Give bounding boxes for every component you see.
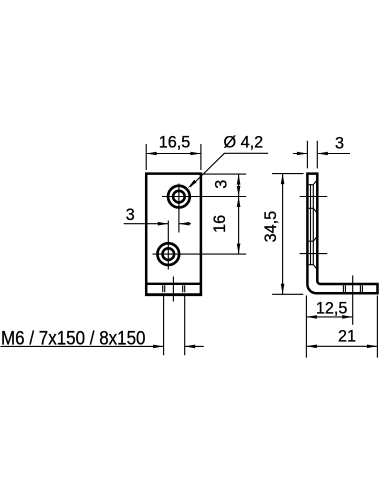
leader Ø 4,2 arrow: [188, 180, 197, 189]
dim 16 arrows: [237, 197, 241, 208]
dimension 16,5 extension lines: [146, 144, 201, 170]
dimension 21 line: [306, 345, 377, 347]
flange hole centerline (front view): [172, 277, 174, 302]
hole H2 inner circle Ø4,2: [163, 248, 175, 260]
side view leg hole corner diagonals: [313, 181, 316, 269]
side view leg hole edge ticks: [309, 185, 314, 265]
leader Ø 4,2 shelf line: [190, 153, 268, 187]
svg-text:34,5: 34,5: [262, 211, 280, 243]
side view: L profile outline: [307, 174, 377, 294]
dimension 3 (hole offset) arrows: [158, 222, 169, 226]
dimension 3 (thickness) line segments: [293, 153, 350, 155]
side view flange hole ticks: [343, 285, 362, 292]
svg-text:3: 3: [335, 135, 344, 153]
svg-text:16,5: 16,5: [159, 134, 191, 152]
dimension 12,5 arrows: [306, 315, 317, 319]
hole H2 outer circle (front view, bottom): [157, 243, 179, 265]
side view hole H1 centermark: [300, 196, 328, 198]
dimension 16,5 line: [146, 153, 201, 155]
dim 3 vertical arrows: [237, 174, 241, 185]
dimension 3 (thickness) extension lines: [307, 141, 317, 169]
hole H1 horizontal centerline / extension to dim: [162, 196, 246, 198]
svg-text:3: 3: [126, 206, 135, 224]
dimension 3 (thickness) arrows: [297, 152, 308, 156]
hole H2 horizontal centerline / extension to dim: [153, 253, 247, 255]
extension line top right (for dim 3 vertical): [202, 173, 246, 175]
svg-text:3: 3: [212, 180, 230, 189]
flange hole edge ticks (front view bottom strip): [163, 285, 185, 292]
svg-text:Ø 4,2: Ø 4,2: [224, 133, 264, 151]
svg-text:12,5: 12,5: [316, 300, 348, 318]
svg-text:M6 / 7x150 / 8x150: M6 / 7x150 / 8x150: [1, 328, 146, 349]
front view: fold line (top of flange): [146, 283, 201, 285]
side view flange hole centerline: [352, 275, 354, 324]
front view: bracket body outline: [146, 174, 201, 296]
dimension 34,5 line: [282, 174, 284, 295]
dimension 34,5 extension lines: [272, 174, 303, 295]
svg-text:16: 16: [211, 215, 229, 233]
svg-text:21: 21: [338, 328, 356, 346]
note leader underline and dim line: [1, 345, 204, 347]
hole H1 inner circle Ø4,2: [173, 191, 185, 203]
side view leg hole inner lines (vertical): [311, 185, 314, 265]
extension lines below front view (flange hole edges): [164, 296, 185, 355]
dimension 3 (hole offset) line segments: [124, 223, 191, 225]
hole H2 vertical centerline: [167, 221, 169, 270]
hole H1 outer circle (front view, top): [168, 186, 190, 208]
note dim arrows: [153, 345, 164, 349]
extension lines below side view: [306, 296, 377, 358]
dimension 21 arrows: [306, 345, 317, 349]
dimension 34,5 arrows: [281, 174, 285, 185]
dimension 16,5 arrows: [146, 152, 157, 156]
hole H1 vertical centerline: [178, 184, 180, 233]
dimension line 3/16 vertical: [238, 174, 240, 254]
side view hole H2 centermark: [300, 253, 328, 255]
dimension 12,5 line: [306, 316, 352, 318]
